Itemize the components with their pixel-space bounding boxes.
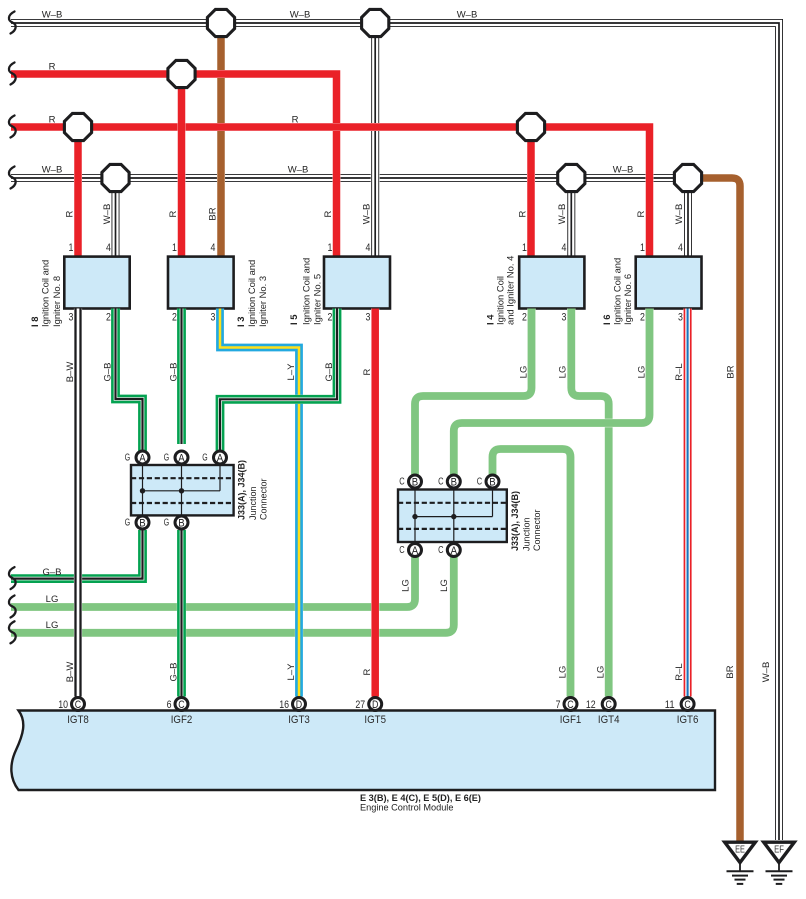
svg-text:and Igniter No. 4: and Igniter No. 4	[505, 256, 516, 325]
svg-text:D: D	[296, 699, 302, 711]
svg-text:EF: EF	[774, 845, 784, 856]
svg-text:BR: BR	[208, 207, 219, 220]
svg-text:R: R	[49, 62, 56, 73]
svg-text:3: 3	[366, 312, 371, 324]
svg-text:R: R	[49, 115, 56, 126]
svg-text:Connector: Connector	[532, 509, 542, 551]
svg-text:I 8: I 8	[29, 317, 40, 327]
svg-text:B: B	[178, 518, 184, 530]
svg-text:L–Y: L–Y	[286, 363, 297, 381]
svg-text:I 3: I 3	[235, 317, 246, 327]
svg-text:J33(A), J34(B): J33(A), J34(B)	[510, 491, 520, 551]
svg-text:IGT5: IGT5	[364, 714, 386, 726]
svg-text:W–B: W–B	[761, 662, 772, 683]
svg-text:C: C	[567, 699, 573, 711]
svg-text:Igniter No. 5: Igniter No. 5	[312, 274, 323, 325]
svg-text:2: 2	[522, 312, 527, 324]
svg-text:LG: LG	[558, 366, 569, 379]
svg-text:C: C	[477, 477, 482, 488]
svg-text:W–B: W–B	[288, 165, 309, 176]
svg-text:LG: LG	[637, 366, 648, 379]
svg-text:A: A	[139, 453, 146, 465]
svg-text:4: 4	[211, 242, 216, 254]
svg-text:C: C	[606, 699, 612, 711]
svg-text:IGT8: IGT8	[67, 714, 89, 726]
svg-text:12: 12	[586, 699, 596, 711]
svg-text:Ignition Coil and: Ignition Coil and	[40, 260, 51, 327]
svg-text:R–L: R–L	[674, 363, 685, 380]
svg-text:IGT3: IGT3	[288, 714, 310, 726]
svg-text:R: R	[323, 210, 334, 217]
svg-text:4: 4	[106, 242, 111, 254]
svg-text:G: G	[164, 518, 170, 529]
svg-text:W–B: W–B	[42, 10, 63, 21]
svg-text:Igniter No. 8: Igniter No. 8	[51, 276, 62, 327]
svg-text:G: G	[125, 453, 131, 464]
svg-text:IGF2: IGF2	[171, 714, 193, 726]
svg-text:G–B: G–B	[324, 362, 335, 381]
svg-text:G–B: G–B	[103, 362, 114, 381]
svg-text:R–L: R–L	[674, 663, 685, 680]
svg-text:IGF1: IGF1	[560, 714, 582, 726]
svg-text:27: 27	[355, 699, 365, 711]
svg-text:10: 10	[58, 699, 68, 711]
svg-text:1: 1	[328, 242, 333, 254]
svg-text:R: R	[636, 210, 647, 217]
svg-text:A: A	[451, 545, 458, 557]
svg-text:BR: BR	[725, 665, 736, 678]
svg-text:B–W: B–W	[65, 362, 76, 383]
svg-text:Igniter No. 3: Igniter No. 3	[257, 276, 268, 327]
svg-text:A: A	[412, 545, 419, 557]
svg-text:Engine Control Module: Engine Control Module	[360, 803, 453, 813]
svg-text:Igniter No. 6: Igniter No. 6	[622, 274, 633, 325]
svg-text:LG: LG	[46, 594, 59, 605]
svg-text:2: 2	[106, 312, 111, 324]
svg-text:1: 1	[172, 242, 177, 254]
svg-text:G–B: G–B	[169, 362, 180, 381]
svg-text:R: R	[362, 668, 373, 675]
svg-text:Ignition Coil and: Ignition Coil and	[301, 258, 312, 325]
svg-text:G: G	[125, 518, 131, 529]
svg-text:3: 3	[211, 312, 216, 324]
svg-text:C: C	[75, 699, 81, 711]
svg-text:I 5: I 5	[288, 315, 299, 325]
svg-text:3: 3	[69, 312, 74, 324]
svg-text:G–B: G–B	[169, 662, 180, 681]
svg-text:6: 6	[167, 699, 172, 711]
svg-text:W–B: W–B	[42, 165, 63, 176]
svg-text:LG: LG	[439, 579, 450, 592]
svg-text:C: C	[438, 545, 443, 556]
svg-text:G–B: G–B	[42, 567, 61, 578]
svg-text:B: B	[139, 518, 145, 530]
svg-text:R: R	[518, 210, 529, 217]
svg-text:3: 3	[678, 312, 683, 324]
svg-text:EE: EE	[735, 845, 745, 856]
svg-text:LG: LG	[401, 579, 412, 592]
svg-text:R: R	[362, 368, 373, 375]
svg-text:7: 7	[556, 699, 561, 711]
svg-text:1: 1	[69, 242, 74, 254]
svg-text:Connector: Connector	[259, 478, 269, 520]
svg-text:B: B	[489, 477, 495, 489]
svg-text:A: A	[178, 453, 185, 465]
svg-text:3: 3	[562, 312, 567, 324]
svg-text:Junction: Junction	[248, 486, 258, 520]
svg-text:IGT4: IGT4	[598, 714, 620, 726]
svg-text:B–W: B–W	[65, 662, 76, 683]
svg-text:C: C	[684, 699, 690, 711]
svg-text:D: D	[372, 699, 378, 711]
svg-text:A: A	[217, 453, 224, 465]
svg-text:LG: LG	[519, 366, 530, 379]
svg-text:J33(A), J34(B): J33(A), J34(B)	[237, 460, 247, 520]
svg-text:Ignition Coil and: Ignition Coil and	[612, 258, 623, 325]
svg-text:C: C	[399, 545, 404, 556]
svg-text:Junction: Junction	[522, 517, 532, 551]
svg-text:C: C	[399, 477, 404, 488]
svg-text:G: G	[202, 453, 208, 464]
svg-text:G: G	[164, 453, 170, 464]
svg-text:I 6: I 6	[601, 315, 612, 325]
svg-text:R: R	[65, 210, 76, 217]
svg-text:LG: LG	[596, 666, 607, 679]
svg-text:2: 2	[172, 312, 177, 324]
svg-text:W–B: W–B	[290, 10, 311, 21]
svg-text:4: 4	[678, 242, 683, 254]
svg-text:C: C	[178, 699, 184, 711]
svg-text:R: R	[292, 115, 299, 126]
svg-text:B: B	[451, 477, 457, 489]
svg-text:4: 4	[366, 242, 371, 254]
svg-text:LG: LG	[558, 666, 569, 679]
svg-text:C: C	[438, 477, 443, 488]
svg-text:2: 2	[328, 312, 333, 324]
svg-text:1: 1	[640, 242, 645, 254]
svg-text:IGT6: IGT6	[677, 714, 699, 726]
svg-text:W–B: W–B	[102, 204, 113, 225]
svg-text:BR: BR	[726, 365, 737, 378]
svg-text:L–Y: L–Y	[286, 663, 297, 681]
svg-text:W–B: W–B	[457, 10, 478, 21]
svg-text:4: 4	[562, 242, 567, 254]
svg-text:W–B: W–B	[362, 204, 373, 225]
svg-text:2: 2	[640, 312, 645, 324]
svg-text:R: R	[168, 210, 179, 217]
svg-text:E 3(B), E 4(C), E 5(D), E 6(E): E 3(B), E 4(C), E 5(D), E 6(E)	[360, 793, 481, 803]
svg-text:11: 11	[665, 699, 675, 711]
svg-text:1: 1	[522, 242, 527, 254]
svg-text:16: 16	[279, 699, 289, 711]
svg-text:Ignition Coil and: Ignition Coil and	[246, 260, 257, 327]
svg-text:W–B: W–B	[674, 204, 685, 225]
svg-text:LG: LG	[46, 620, 59, 631]
svg-text:B: B	[412, 477, 418, 489]
svg-text:W–B: W–B	[557, 204, 568, 225]
svg-text:W–B: W–B	[613, 165, 634, 176]
